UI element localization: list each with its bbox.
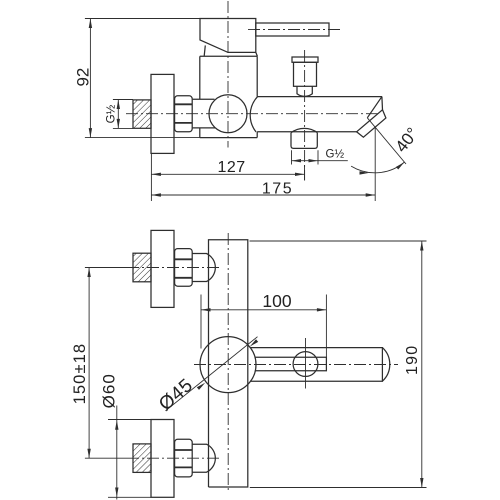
dimension 150+-18 arrows	[87, 268, 90, 278]
40 degree flow line	[367, 118, 406, 164]
body bottom edge	[200, 137, 257, 139]
dimension 100 line	[201, 309, 326, 311]
bottom union centerline extension	[85, 457, 127, 459]
body left edge upper	[199, 56, 201, 99]
dimension G1/2 (boss) arrows	[292, 159, 302, 162]
40 degree arc arrows	[360, 171, 370, 174]
valve body circle (front)	[200, 337, 256, 393]
dimension 150+-18 line	[88, 268, 90, 459]
top hex nut facets	[175, 258, 193, 260]
dimension 127 arrows	[151, 173, 161, 176]
hex nut (side view)	[175, 96, 193, 132]
dimension 127 line	[151, 173, 304, 175]
spout top edge	[257, 96, 382, 98]
dimension 127 extension right	[304, 165, 306, 180]
cartridge collar left edge	[204, 45, 205, 56]
body left edge lower	[199, 128, 201, 138]
dimension G1/2 (left) extensions	[113, 99, 133, 101]
spout bottom edge	[257, 131, 356, 133]
column vertical centerline	[227, 233, 229, 493]
spout tip cut face (upper segment)	[367, 97, 382, 118]
diverter knob body	[294, 62, 317, 86]
top wall flange	[151, 230, 174, 307]
dimension D60 extension top	[108, 419, 151, 421]
dimension 175 line	[151, 194, 375, 196]
bottom hatched supply pipe	[133, 444, 151, 473]
diverter circle centerline	[305, 338, 307, 389]
dimension G1/2 (boss) extensions	[291, 150, 293, 164]
svg-text:175: 175	[262, 181, 293, 198]
handle rod centerline	[248, 29, 341, 31]
dimension 175 extension left (wall plane)	[150, 153, 152, 201]
valve body circle	[209, 95, 247, 133]
diverter circle (front)	[293, 352, 318, 377]
svg-text:127: 127	[217, 159, 245, 176]
top union body	[192, 254, 215, 282]
spout/body intersection arc	[250, 97, 257, 132]
cartridge collar right edge	[256, 52, 258, 56]
body vertical centerline	[227, 1, 229, 148]
aerator outlet (rotated rect)	[357, 110, 386, 137]
dimension 100 extension right	[325, 295, 327, 358]
svg-text:G½: G½	[326, 149, 345, 161]
dimension G1/2 (left) line	[117, 100, 119, 129]
spout body (front)	[250, 348, 382, 382]
hatched supply pipe	[133, 100, 151, 128]
dimension 190 arrows	[420, 241, 423, 251]
dimension 175 extension right	[374, 128, 376, 202]
40 degree arc	[351, 162, 404, 173]
dimension D60 line	[116, 406, 118, 500]
top hex nut	[175, 249, 193, 287]
bottom hex nut	[175, 439, 193, 477]
dimension 92 extension top	[85, 18, 200, 20]
bottom union body	[192, 444, 215, 472]
hex nut facet lines	[175, 103, 193, 105]
diverter knob stem	[297, 86, 312, 96]
dimension 190 extension top	[250, 240, 427, 242]
diverter knob cap	[292, 57, 318, 62]
dimension 92 arrows	[89, 19, 92, 29]
svg-text:40°: 40°	[392, 124, 423, 156]
dimension 100 extension left	[200, 295, 202, 349]
diverter knob centerline	[304, 50, 306, 181]
shower outlet boss body	[291, 133, 317, 149]
spout horizontal centerline	[194, 364, 398, 366]
bottom hex nut facets	[175, 449, 193, 451]
main horizontal centerline	[126, 113, 378, 115]
dimension 190 line	[421, 241, 423, 488]
bottom wall flange	[151, 420, 174, 498]
svg-text:100: 100	[262, 291, 291, 311]
dimension D45 leader line	[166, 337, 258, 411]
body top edge	[200, 55, 257, 57]
spout inner tube	[256, 357, 327, 371]
handle rod	[256, 23, 329, 36]
spout tip right edge	[381, 97, 384, 110]
shower outlet boss arc	[291, 128, 318, 132]
dimension D60 extension bottom	[108, 496, 151, 498]
inlet tube bottom	[193, 127, 216, 129]
dimension G1/2 (left) arrows	[117, 100, 120, 110]
dimension D60 arrows	[115, 420, 118, 430]
inlet tube top	[193, 98, 215, 100]
top hatched supply pipe	[133, 253, 151, 282]
dimension G1/2 (boss) line	[292, 160, 348, 162]
svg-text:G½: G½	[106, 104, 118, 123]
handle lever body	[200, 19, 256, 53]
body column outline	[209, 240, 248, 487]
svg-text:92: 92	[73, 68, 92, 87]
dimension 100 arrows	[201, 308, 211, 311]
top union centerline extension	[85, 267, 127, 269]
dimension D45 arrows	[197, 383, 206, 390]
dimension 92 line	[89, 19, 91, 138]
svg-text:190: 190	[404, 345, 421, 375]
spout end cap arc	[382, 348, 389, 382]
dimension 190 extension bottom	[250, 487, 427, 489]
dimension 175 arrows	[151, 193, 161, 196]
top union centerline	[127, 267, 222, 269]
bottom union centerline	[127, 457, 222, 459]
body right edge	[256, 56, 258, 96]
wall flange (escutcheon)	[151, 74, 174, 153]
body bottom right step	[256, 132, 258, 138]
dimension 92 extension bottom	[85, 137, 200, 139]
svg-text:Ø45: Ø45	[155, 375, 197, 415]
svg-text:150±18: 150±18	[71, 343, 89, 405]
svg-text:Ø60: Ø60	[99, 373, 118, 408]
